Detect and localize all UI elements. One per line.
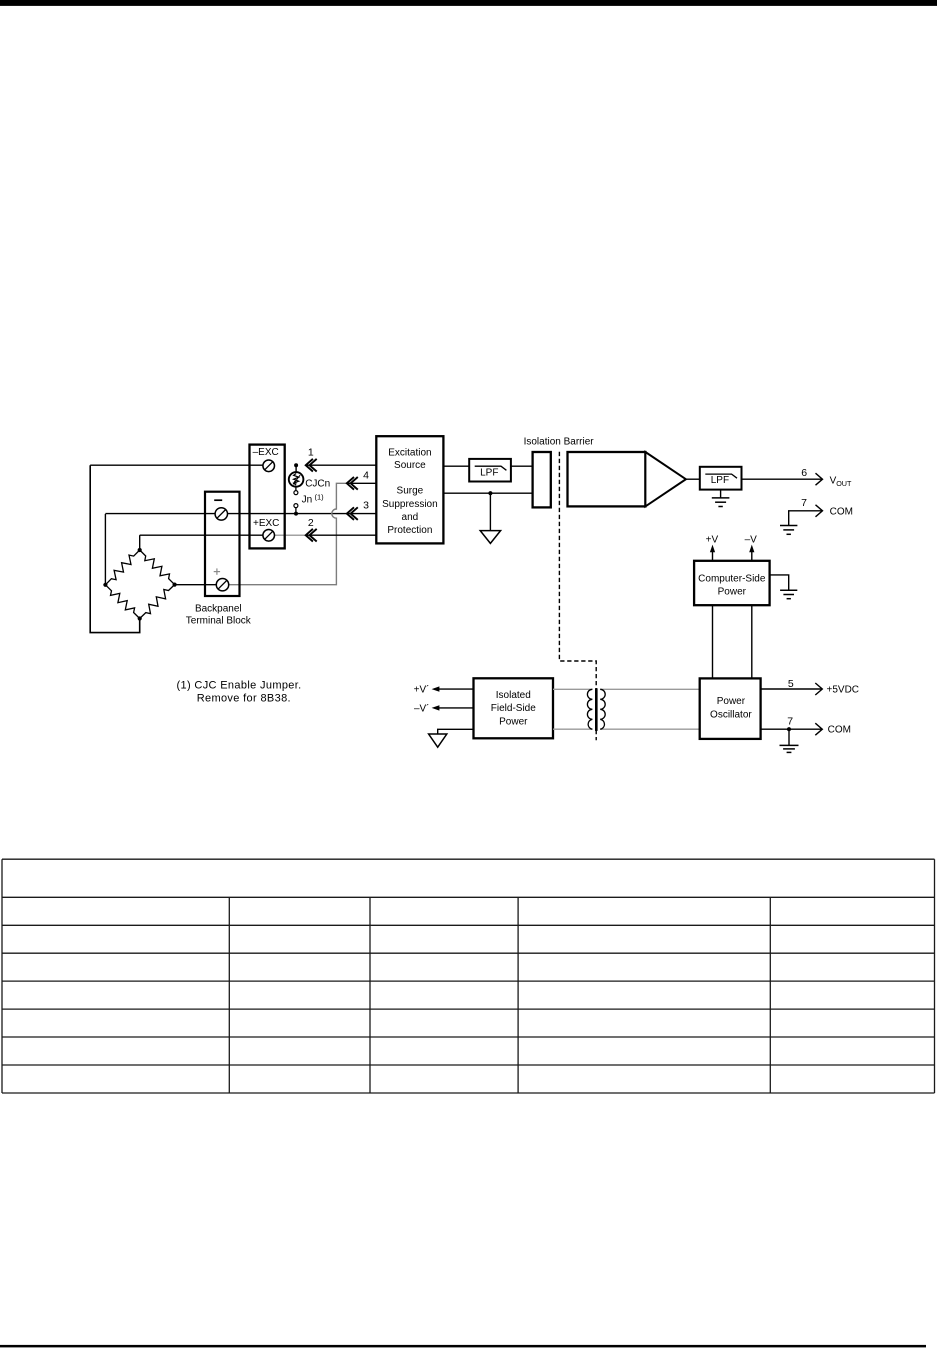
svg-text:Power: Power [717,696,746,707]
wire: pin 7 COM (bottom) [761,728,822,730]
wire: pin 2 chevron to excitation block [306,534,377,536]
wire: transformer secondary to oscillator (top) [600,688,700,690]
wire: pin 2 gray segment from +EXC screw to chevron [274,534,305,536]
node: LPF1 ground tap [488,491,492,495]
wire: field-side ground stub [438,729,474,734]
wire: pin 1 chevron to excitation block [306,464,377,466]
pin 6 arrow [816,473,823,485]
wire: pin 3 row (backpanel - terminal through blocks to excitation) [105,513,376,515]
note: CJC enable jumper [177,679,302,704]
svg-text:OUT: OUT [836,479,852,488]
svg-text:CJCn: CJCn [305,479,330,490]
node: bridge left [103,583,107,587]
ground: computer-side earth [780,590,797,598]
svg-text:Oscillator: Oscillator [710,709,752,720]
wire: CJC tap to sensor [295,465,297,473]
ground: field-side power open triangle [429,734,447,747]
wire: excitation to LPF1 (top row) [443,465,469,467]
pin 5 arrow [815,683,822,695]
terminal: -EXC screw [263,460,275,472]
svg-text:Isolated: Isolated [496,690,531,701]
svg-text:Terminal Block: Terminal Block [186,616,252,627]
jumper Jn pin (upper) [294,487,298,495]
ground: field-side open triangle (LPF1) [480,531,500,544]
block: Excitation Source / Surge Suppression and Protection [376,436,443,543]
wire: pin 5 (+5VDC) [761,688,822,690]
svg-text:Isolation Barrier: Isolation Barrier [524,436,595,447]
pin 1 arrow [306,459,313,472]
isolation barrier element (tall rect) [533,452,551,507]
node: pin 7 ground junction [787,727,791,731]
wire: -Vprime lead [438,707,474,709]
terminal: backpanel + screw [216,579,228,591]
svg-text:and: and [402,512,419,523]
label: VOUT [830,475,852,488]
ground: pin 7 earth [780,745,799,752]
svg-text:(1): (1) [315,493,325,502]
wire: computer-side to oscillator (+V rail) [712,605,714,678]
jumper Jn pin (lower) [294,504,298,514]
node: bridge right [173,583,177,587]
wire: pin 7 ground stub [788,729,790,745]
svg-text:+EXC: +EXC [253,518,279,529]
svg-text:7: 7 [801,497,807,509]
svg-text:Suppression: Suppression [382,499,438,510]
wire: pin 4 path from backpanel + terminal (gray, with hop over pin3) [229,483,347,584]
block: Computer-Side Power [694,561,770,605]
transformer T1 primary winding [587,689,592,729]
svg-text:–EXC: –EXC [253,447,279,458]
svg-text:COM: COM [830,506,853,517]
svg-text:6: 6 [801,467,807,479]
transformer T1 core / barrier bar [595,688,598,731]
terminal: backpanel - screw [215,508,227,520]
svg-text:COM: COM [828,725,851,736]
sensor CJCn (CJC thermistor) [289,472,304,487]
wire: field-side power to transformer primary (bottom) [553,728,592,730]
wire: LPF2 ground stub [720,490,722,498]
svg-text:Source: Source [394,460,426,471]
wire: bridge left node to backpanel - terminal riser [104,514,106,585]
svg-text:–V: –V [745,535,758,546]
wire: amplifier to LPF2 [686,478,700,480]
svg-text:+V´: +V´ [414,684,430,696]
wire: pin 6 output [742,478,822,480]
-Vprime arrow [432,705,440,710]
svg-text:Power: Power [499,716,528,727]
wire: pin 4 chevron to excitation block [347,482,377,484]
pin 3 arrow [347,507,354,520]
wire: pin 2 / +EXC row (bridge top to +EXC screw) [140,534,269,536]
wire: computer-side to oscillator (-V rail) [751,605,753,678]
wire: bridge top node to +EXC row riser [139,535,141,550]
svg-text:7: 7 [787,716,793,728]
wire: transformer secondary to oscillator (bottom) [600,728,700,730]
svg-text:LPF: LPF [480,467,498,478]
wire: LPF1 to isolation barrier element [511,465,533,467]
svg-text:Backpanel: Backpanel [195,604,242,615]
label: - (minus) above backpanel screw [214,499,222,501]
resistor: bridge top-left arm [105,550,139,585]
svg-text:+V: +V [706,535,719,546]
node: bridge bottom [138,616,142,620]
svg-text:Computer-Side: Computer-Side [698,574,766,585]
ground: COM earth (top) [780,526,797,535]
wire: computer-side ground stub [770,575,789,590]
svg-text:1: 1 [308,446,314,458]
backpanel terminal block outline [205,492,240,596]
pin 4 arrow [347,477,354,490]
resistor: bridge bottom-right arm [140,585,175,619]
svg-text:–V´: –V´ [414,702,430,714]
wire: ground tap down [489,493,491,530]
block: Isolated Field-Side Power [474,678,554,738]
op-amp U1 (isolation amplifier rect + triangle) [568,452,686,506]
svg-text:5: 5 [788,678,794,690]
-V arrow [749,545,754,561]
block: Power Oscillator [700,678,761,739]
svg-text:Jn: Jn [302,495,313,506]
wire: +Vprime lead [438,688,474,690]
svg-text:4: 4 [363,469,369,481]
module terminal block (-EXC/+EXC) outline [250,445,285,549]
+Vprime arrow [432,686,440,691]
svg-text:2: 2 [308,517,314,529]
node: Jn junction on pin3 row [294,512,298,516]
svg-text:Surge: Surge [397,486,424,497]
wire: field-side power to transformer primary (top) [553,688,592,690]
wire: bridge right node to backpanel + terminal [175,584,223,586]
ground: LPF2 earth [712,498,730,507]
+V arrow [710,545,715,561]
wire: excitation to isolation barrier element (lower row) [443,492,533,494]
isolation barrier dashed line [559,452,596,741]
filter LPF2 [700,467,742,490]
wire: pin 7 COM (top) [789,511,822,526]
wire: row to -EXC terminal [90,464,269,466]
label: Backpanel Terminal Block [186,604,252,627]
svg-text:Remove for 8B38.: Remove for 8B38. [197,693,291,705]
pin 7 arrow (bottom) [815,723,822,735]
svg-text:Power: Power [718,587,747,598]
wire: -EXC return loop (left outer) [90,465,140,632]
svg-text:LPF: LPF [711,475,729,486]
filter LPF1 [469,459,511,482]
label: + above backpanel screw [214,568,220,574]
pin 7 arrow (top) [816,505,823,517]
svg-text:3: 3 [363,500,369,512]
pin 2 arrow [306,529,313,542]
node: CJC tap on pin1 row [294,463,298,467]
resistor: bridge bottom-left arm [105,585,139,619]
label: Jn (1) [302,493,325,506]
svg-text:Protection: Protection [387,525,432,536]
svg-text:(1) CJC Enable Jumper.: (1) CJC Enable Jumper. [177,679,302,691]
resistor: bridge top-right arm [140,550,175,585]
terminal: +EXC screw [263,530,275,542]
svg-text:+5VDC: +5VDC [827,685,860,696]
transformer T1 secondary winding [600,689,605,729]
svg-text:Field-Side: Field-Side [491,703,536,714]
node: bridge top [138,548,142,552]
svg-text:Excitation: Excitation [388,447,431,458]
